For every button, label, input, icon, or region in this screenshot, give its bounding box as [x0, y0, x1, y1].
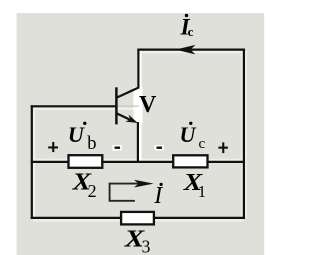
wire: middle — [31, 161, 244, 163]
white strip right of collector/emitter vertical — [139, 51, 142, 161]
white halo below bottom wire — [33, 219, 243, 221]
svg-text:c: c — [199, 136, 206, 152]
wire: top — [137, 48, 245, 50]
label X3 — [124, 225, 151, 255]
white halo below base wire — [33, 108, 139, 110]
label - (right of Ub) — [113, 145, 122, 150]
label Ic (top) — [180, 14, 194, 40]
label X1 — [183, 169, 206, 201]
svg-text:2: 2 — [88, 181, 97, 201]
svg-text:V: V — [139, 92, 157, 118]
wire: emitter vertical — [137, 122, 139, 162]
label X2 — [71, 168, 96, 201]
label I (current) — [153, 183, 163, 209]
transistor collector diagonal — [116, 87, 139, 98]
svg-text:1: 1 — [198, 182, 206, 201]
svg-text:b: b — [87, 134, 96, 154]
svg-text:U: U — [180, 122, 197, 147]
white halo below top wire — [139, 51, 243, 53]
resistor X3 box — [121, 212, 154, 225]
label Ub — [68, 122, 97, 154]
transistor V — [116, 87, 139, 124]
white halo above middle wire — [33, 159, 243, 161]
wire: left vertical — [31, 105, 33, 219]
transistor base bar — [115, 87, 118, 124]
transistor emitter arrowhead — [125, 115, 138, 124]
label - (left of Uc) — [155, 145, 164, 150]
svg-text:U: U — [68, 122, 85, 147]
transistor emitter diagonal — [116, 113, 130, 120]
wire: collector vertical — [137, 50, 139, 89]
white halo right of left wire — [33, 108, 35, 217]
wire: base wire — [31, 105, 117, 107]
svg-text:I: I — [153, 183, 163, 209]
white halos around right wire — [241, 51, 243, 217]
svg-text:3: 3 — [142, 237, 151, 255]
resistor X2 box — [69, 155, 103, 168]
faint base-line remnant right of bar — [117, 105, 139, 107]
svg-text:c: c — [188, 24, 194, 39]
label + (right of Uc) — [218, 142, 228, 153]
label + (left of Ub) — [48, 142, 58, 152]
wire: bottom — [31, 217, 245, 219]
current I bent arrow — [110, 184, 140, 201]
resistor X1 box — [173, 155, 207, 167]
wire: right vertical — [243, 49, 245, 220]
white box of transistor label area — [134, 87, 143, 123]
label Uc — [180, 122, 206, 152]
arrowhead Ic on top wire (points left) — [175, 45, 195, 55]
